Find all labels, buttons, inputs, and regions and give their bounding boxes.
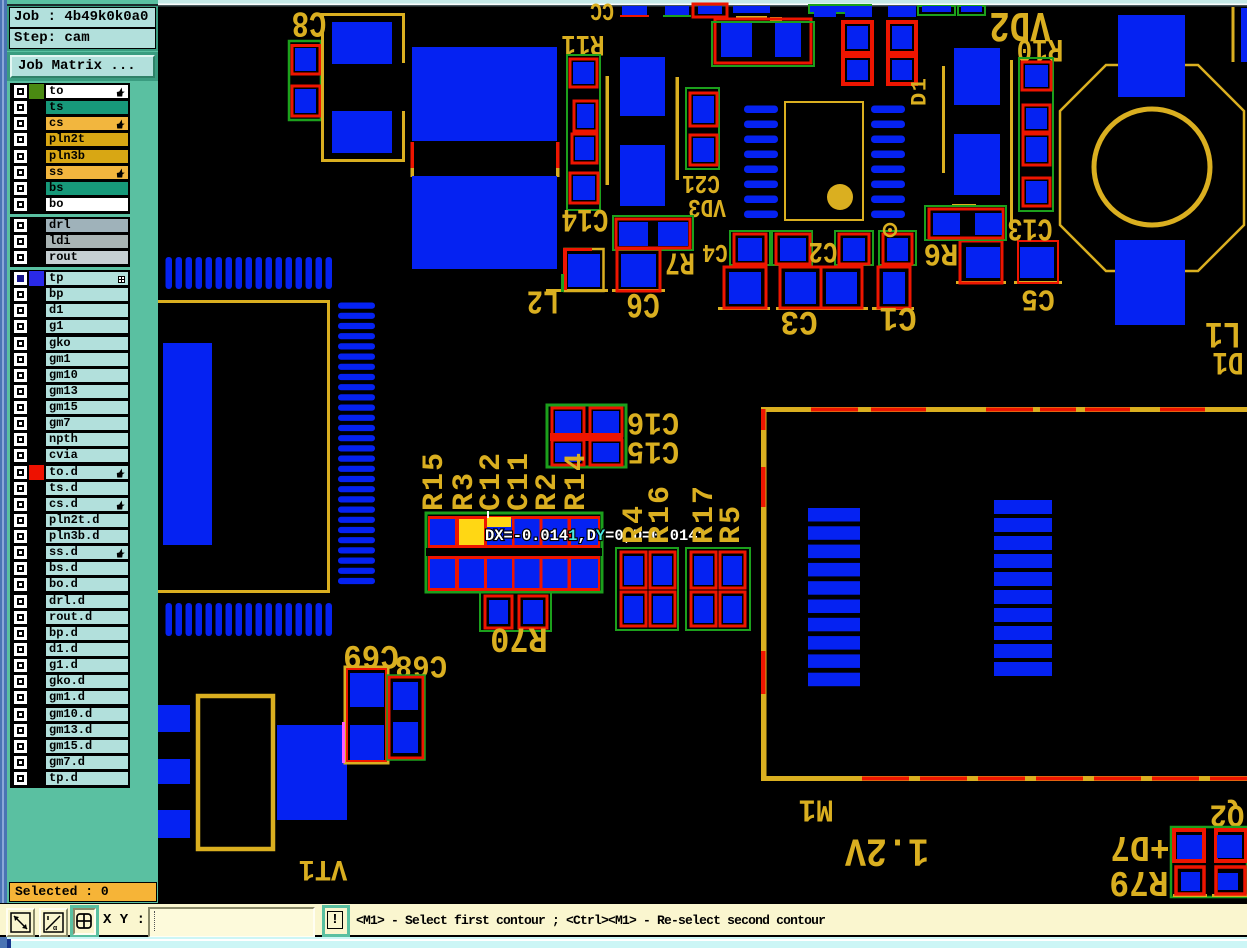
pad cluster right of top [843, 22, 872, 53]
resistor row group [426, 513, 602, 592]
component outline (near C8) [321, 13, 324, 162]
svg-text:C14: C14 [562, 200, 609, 238]
red marks [411, 142, 415, 168]
silk ring marker [884, 224, 896, 236]
svg-text:CC: CC [590, 0, 614, 24]
QFP right pads [338, 303, 375, 309]
svg-text:R70: R70 [490, 617, 548, 657]
capacitor C6 pad [612, 289, 665, 292]
svg-text:R5: R5 [715, 504, 749, 544]
gold corner top-right [1232, 7, 1235, 62]
QFP top pads [166, 257, 173, 289]
svg-text:C4: C4 [702, 236, 727, 266]
inductor L1 [1060, 65, 1244, 271]
large pad 2 [412, 176, 557, 269]
svg-text:C1: C1 [879, 298, 916, 337]
svg-text:R14: R14 [560, 451, 594, 511]
resistors R17 R5 [686, 548, 750, 630]
svg-text:R79: R79 [1109, 861, 1168, 902]
QFP bottom pads [166, 603, 173, 636]
M1 left pad column [808, 508, 860, 522]
svg-text:C15: C15 [627, 432, 679, 468]
capacitors C16 C15 [547, 405, 626, 467]
svg-text:R15: R15 [418, 451, 452, 511]
top pad row [622, 6, 647, 17]
svg-text:VT1: VT1 [299, 852, 348, 887]
wire/silk line [606, 76, 610, 185]
svg-text:R16: R16 [644, 484, 678, 544]
C21 pads [620, 57, 665, 116]
IC UD3 [785, 102, 863, 220]
svg-text:M1: M1 [799, 790, 834, 826]
cursor mark [487, 511, 489, 518]
capacitor C13 [925, 206, 1006, 240]
transistor Q2 / diode D7 pads [1171, 827, 1247, 897]
component top cluster [736, 16, 767, 20]
resistors R4 R16 [616, 548, 678, 630]
inductor L2 [546, 289, 608, 292]
capacitor C2 cluster top pads [730, 231, 770, 265]
svg-text:C2: C2 [809, 233, 838, 267]
svg-text:C13: C13 [1008, 209, 1053, 244]
svg-text:D1: D1 [1212, 343, 1243, 381]
QFP body pad [163, 343, 212, 545]
capacitor C21 [686, 88, 719, 169]
silk line [676, 77, 680, 180]
module M1 outline [761, 407, 1247, 412]
svg-text:R7: R7 [665, 243, 695, 278]
transistor VT1 [198, 696, 273, 849]
IC QFP outline [158, 300, 330, 303]
svg-text:C3: C3 [780, 302, 817, 341]
M1 right pad column [994, 500, 1052, 514]
svg-text:D1: D1 [908, 77, 933, 106]
bottom pads C3/C1 [718, 307, 770, 310]
svg-text:C5: C5 [1021, 281, 1055, 317]
svg-text:Q2: Q2 [1210, 795, 1245, 831]
svg-text:C6: C6 [626, 283, 660, 323]
large pad 1 [412, 47, 557, 141]
svg-text:L2: L2 [527, 280, 559, 318]
svg-text:1.2V: 1.2V [845, 827, 929, 872]
diode D1 [942, 66, 945, 173]
resistor R70 [480, 592, 551, 631]
